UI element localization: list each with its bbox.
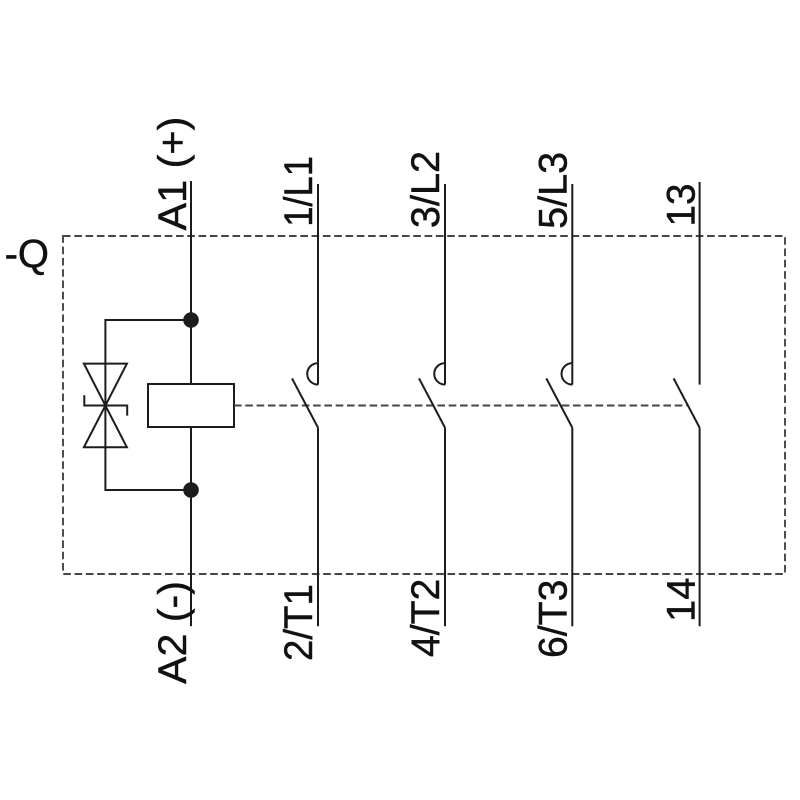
svg-text:3/L2: 3/L2	[404, 151, 448, 228]
wire contact pole2 top 3/L2	[444, 184, 446, 385]
wire contact pole3 top 5/L3	[571, 184, 573, 385]
svg-text:-Q: -Q	[5, 232, 49, 276]
coil K operating coil	[148, 384, 234, 427]
wire contact pole1 top 1/L1	[317, 184, 319, 385]
actuator linkage dashed line	[234, 405, 687, 407]
wire aux contact top 13	[699, 182, 701, 385]
svg-text:6/T3: 6/T3	[532, 580, 576, 658]
svg-text:A1 (+): A1 (+)	[151, 117, 195, 231]
wire suppressor branch top	[105, 320, 191, 364]
svg-text:A2 (-): A2 (-)	[151, 581, 195, 684]
wire contact pole1 bottom 2/T1	[317, 428, 319, 627]
contact pole1 movable blade	[292, 378, 318, 427]
suppressor bidirectional TVS diode	[84, 364, 127, 448]
svg-text:4/T2: 4/T2	[404, 579, 448, 657]
contact pole2 fixed contact arc	[434, 363, 445, 385]
svg-text:14: 14	[660, 578, 704, 623]
wire contact pole3 bottom 6/T3	[571, 428, 573, 627]
aux contact movable blade	[674, 378, 700, 427]
svg-text:1/L1: 1/L1	[277, 156, 321, 227]
svg-text:2/T1: 2/T1	[277, 584, 321, 661]
wire aux contact bottom 14	[699, 428, 701, 627]
wire suppressor branch bottom	[105, 447, 191, 490]
enclosure -Q dashed outline	[63, 236, 785, 574]
junction dot top	[183, 312, 199, 328]
svg-text:13: 13	[660, 184, 704, 227]
contact pole3 movable blade	[546, 378, 572, 427]
wire contact pole2 bottom 4/T2	[444, 428, 446, 627]
wire coil top terminal A1	[190, 181, 192, 384]
contact pole3 fixed contact arc	[562, 363, 573, 385]
contact pole2 movable blade	[419, 378, 445, 427]
wire coil bottom terminal A2	[190, 427, 192, 626]
svg-text:5/L3: 5/L3	[532, 152, 576, 229]
junction dot bottom	[183, 482, 199, 498]
contact pole1 fixed contact arc	[307, 363, 318, 385]
